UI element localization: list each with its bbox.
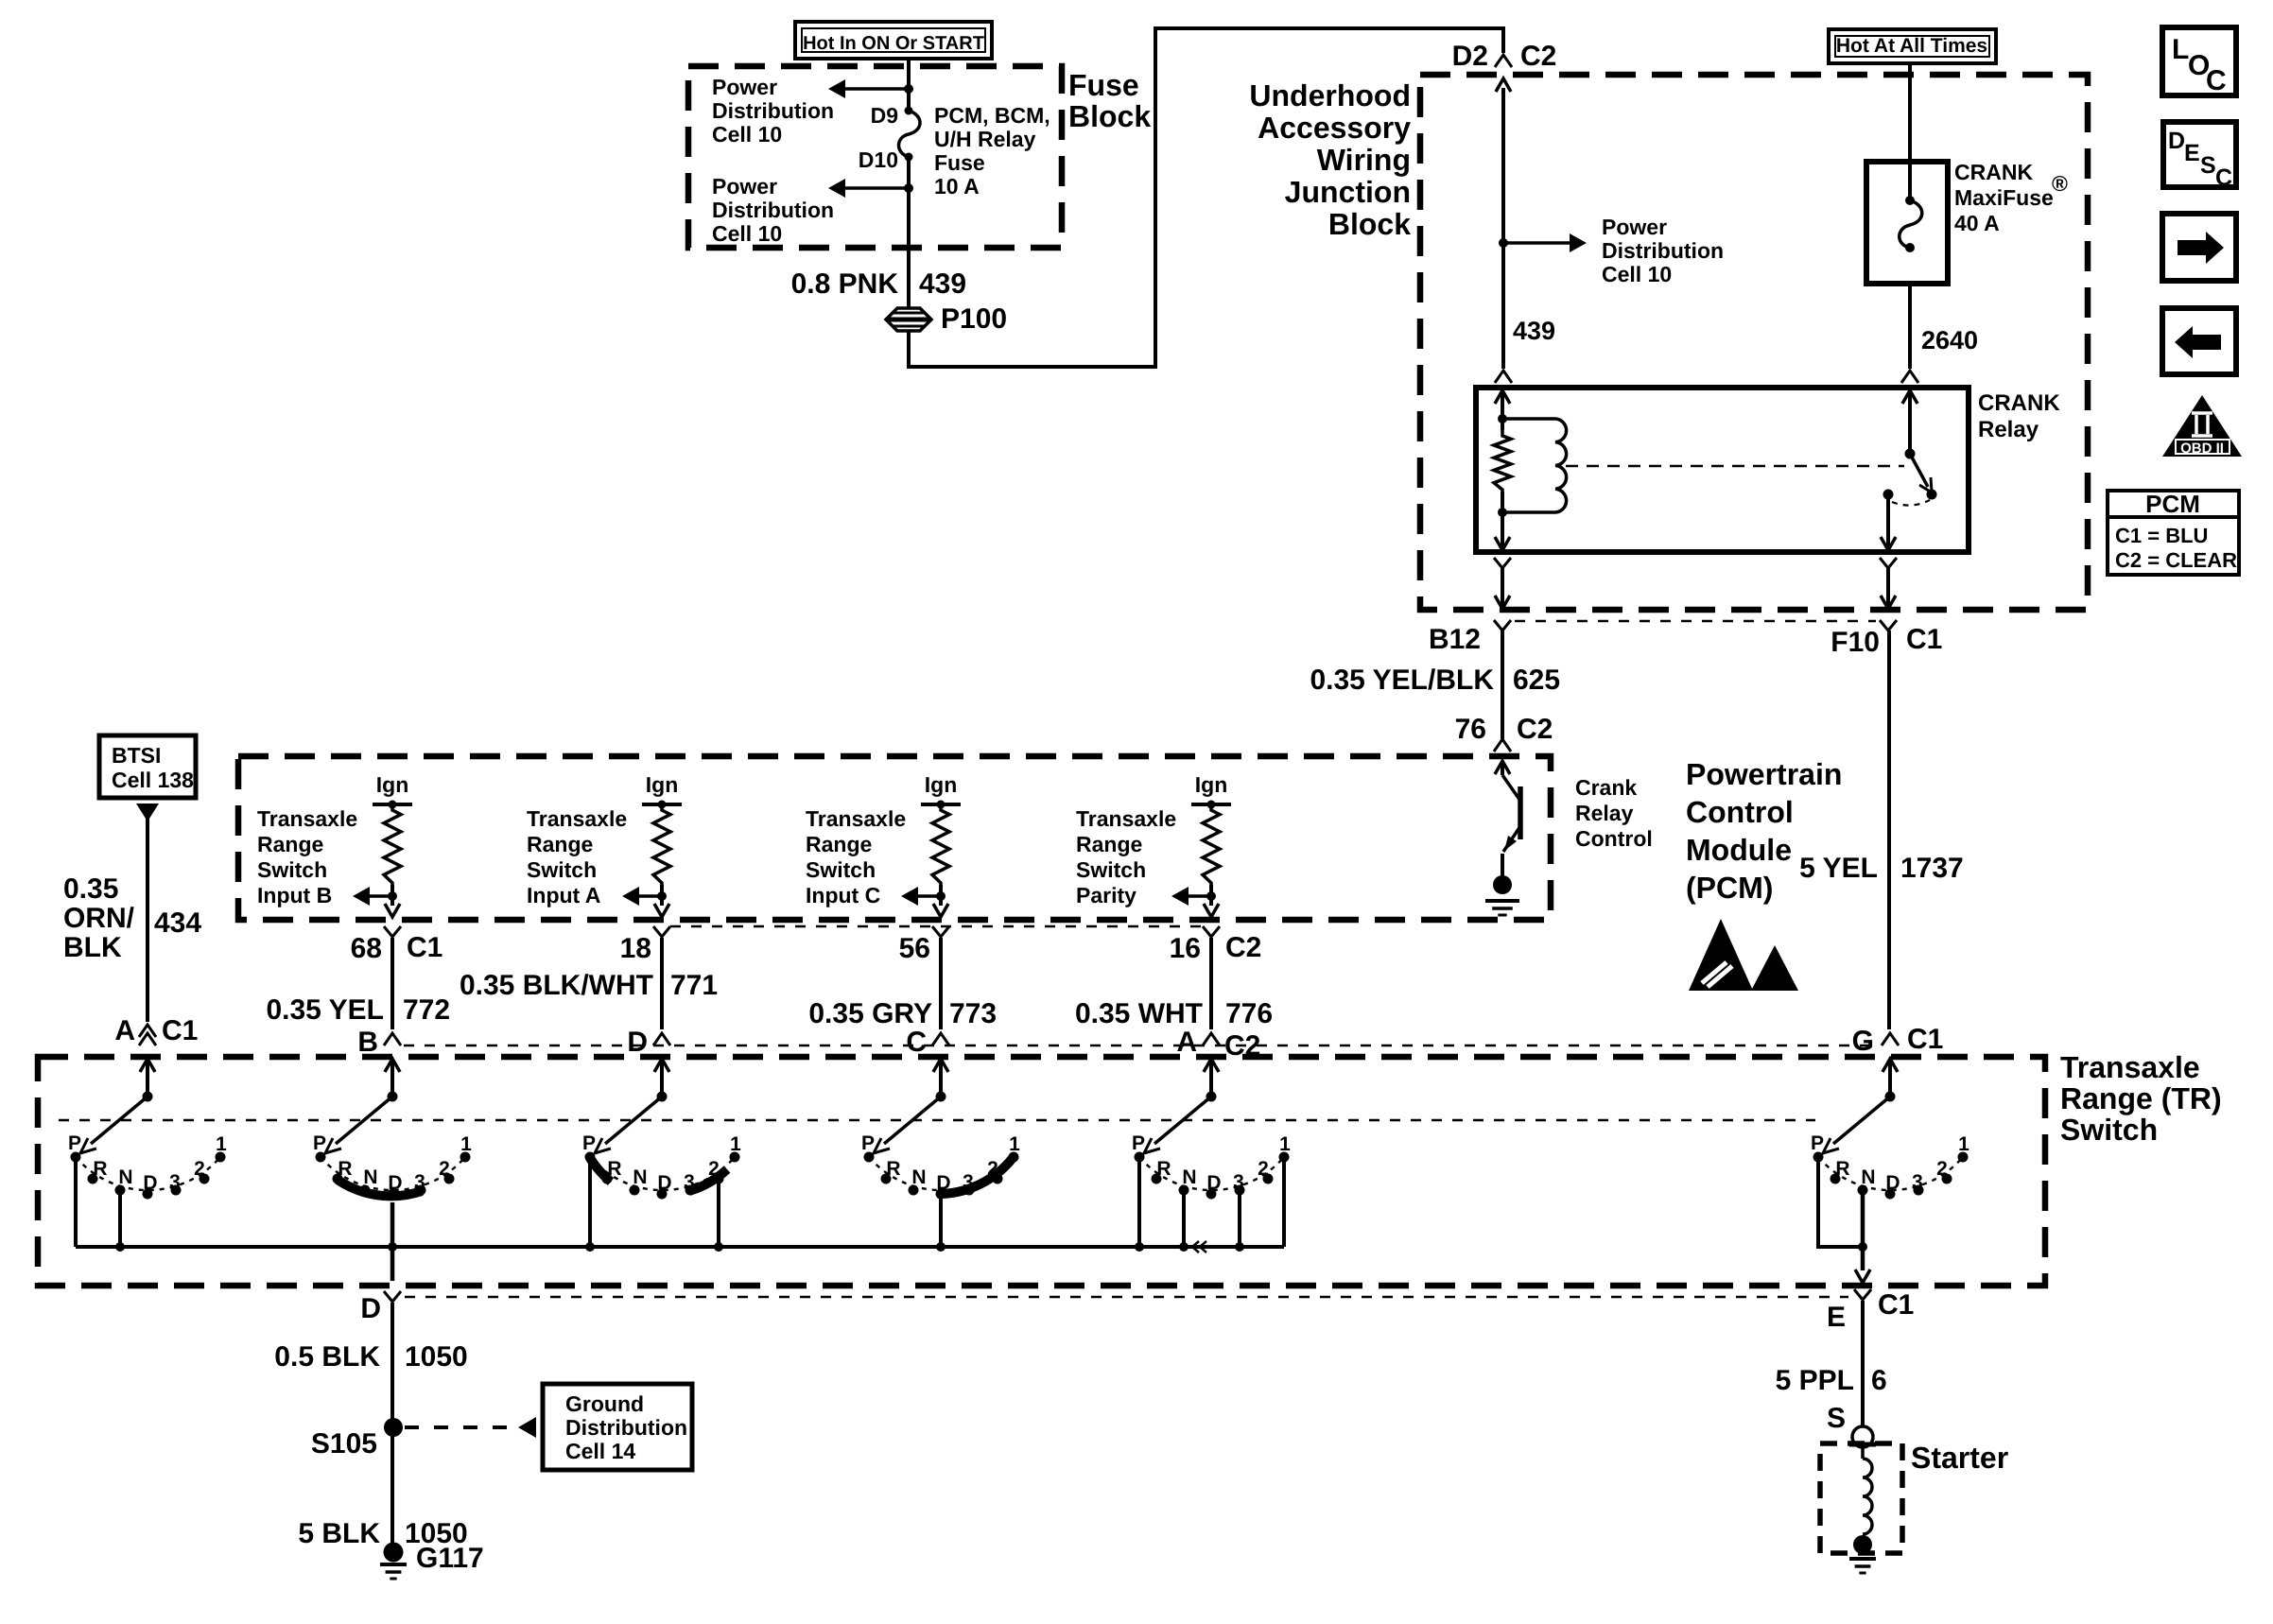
svg-text:Range: Range	[806, 832, 872, 856]
svg-text:L: L	[2172, 34, 2189, 65]
contact 3 (B)	[416, 1185, 426, 1196]
svg-text:MaxiFuse: MaxiFuse	[1954, 185, 2054, 210]
svg-text:OBD II: OBD II	[2180, 441, 2224, 457]
svg-text:Block: Block	[1068, 99, 1151, 133]
contact 1 (G)	[1958, 1152, 1969, 1163]
svg-text:1737: 1737	[1900, 853, 1964, 884]
wire: branch to power distribution cell 10 (bottom)	[845, 186, 909, 190]
contact P (D)	[585, 1152, 596, 1163]
svg-text:68: 68	[351, 933, 382, 964]
contact D (Parity)	[1206, 1189, 1217, 1200]
connector chevron: TR pin G	[1882, 1033, 1899, 1045]
svg-text:D: D	[388, 1172, 402, 1194]
contact 2 (Parity)	[1263, 1174, 1274, 1184]
svg-text:2: 2	[194, 1158, 205, 1180]
svg-text:U/H Relay: U/H Relay	[934, 127, 1036, 151]
contact N (D)	[630, 1185, 640, 1196]
wire: contact D to bus (C)	[939, 1194, 943, 1247]
svg-text:2: 2	[1258, 1158, 1269, 1180]
svg-text:A: A	[1176, 1027, 1197, 1058]
switch wiper (D)	[605, 1097, 662, 1144]
svg-text:0.5 BLK: 0.5 BLK	[274, 1341, 380, 1373]
svg-text:16: 16	[1170, 933, 1201, 964]
svg-text:Module: Module	[1686, 833, 1792, 867]
svg-text:D: D	[1885, 1172, 1900, 1194]
svg-text:0.35 YEL: 0.35 YEL	[266, 994, 384, 1026]
connector chevron: TR pin C	[932, 1033, 949, 1045]
svg-text:Transaxle: Transaxle	[806, 806, 906, 831]
underhood accessory wiring junction block dashed box	[1420, 75, 2088, 610]
svg-text:2: 2	[1936, 1158, 1948, 1180]
label box: Ground Distribution Cell 14	[543, 1384, 692, 1470]
svg-text:®: ®	[2052, 171, 2068, 196]
wire: wiper feed (Parity)	[1209, 1059, 1213, 1097]
svg-text:D: D	[360, 1293, 381, 1324]
relay box: CRANK Relay	[1476, 388, 1969, 552]
resistor: relay coil suppression	[1494, 430, 1511, 492]
arrow: into TR switch (C)	[933, 1059, 948, 1072]
node D10	[905, 153, 913, 162]
svg-text:439: 439	[919, 268, 966, 300]
arrow: sense into logic (Input C)	[901, 887, 918, 906]
arrow: into TR switch (B)	[385, 1059, 400, 1072]
connector: A C1 chevron	[139, 1025, 156, 1037]
dashed arc: switch throw	[1892, 500, 1930, 506]
svg-text:C2: C2	[1520, 41, 1556, 72]
svg-text:Power: Power	[712, 174, 777, 199]
node: bus junction (B-D)	[388, 1242, 397, 1252]
svg-text:C: C	[2215, 164, 2232, 191]
dashed link: switch mechanical coupling	[59, 1119, 1815, 1122]
svg-text:Ign: Ign	[646, 772, 679, 797]
arrow: sense into logic (Parity)	[1171, 887, 1189, 906]
svg-text:PCM, BCM,: PCM, BCM,	[934, 103, 1050, 128]
connector chevron: pin 68	[384, 926, 401, 937]
dashed connector line B12-F10	[1515, 620, 1876, 623]
node: coil bottom	[1498, 508, 1507, 517]
svg-text:CRANK: CRANK	[1954, 160, 2033, 184]
svg-text:P: P	[1132, 1132, 1145, 1154]
svg-text:Range: Range	[257, 832, 323, 856]
switch wiper (Parity)	[1154, 1097, 1211, 1144]
wire: wiper feed (A)	[146, 1059, 149, 1097]
wire: PCM pin 56 to TR switch	[939, 938, 943, 1029]
node: splice S105	[384, 1418, 403, 1437]
contact 2 (D)	[714, 1174, 724, 1184]
svg-text:6: 6	[1871, 1365, 1887, 1396]
node: wiper pivot (D)	[657, 1092, 668, 1102]
arrow: sense into logic (Input B)	[353, 887, 370, 906]
wire: resistor to node (Input A)	[660, 885, 664, 906]
wire: contact P down (G)	[1818, 1157, 1863, 1247]
dashed connector line C2 top	[670, 925, 1203, 928]
svg-text:Input A: Input A	[527, 883, 600, 907]
contact 1 (Parity)	[1279, 1152, 1290, 1163]
ground: PCM internal	[1493, 875, 1512, 894]
contact 3 (Parity)	[1235, 1185, 1245, 1196]
wire: sense branch left (Parity)	[1187, 894, 1211, 898]
label box: Hot In ON Or START	[795, 22, 992, 59]
wire: TR switch ground lead	[390, 1303, 394, 1557]
svg-text:771: 771	[670, 970, 718, 1001]
dashed link: to ground distribution	[405, 1425, 516, 1429]
svg-text:D: D	[657, 1172, 671, 1194]
wire: battery feed to maxifuse	[1908, 63, 1912, 200]
svg-text:N: N	[1182, 1166, 1196, 1188]
svg-text:1050: 1050	[405, 1341, 468, 1373]
svg-text:D: D	[143, 1172, 157, 1194]
contact P (Parity)	[1135, 1152, 1145, 1163]
svg-text:N: N	[363, 1166, 377, 1188]
svg-text:C1 = BLU: C1 = BLU	[2115, 524, 2208, 547]
dashed link: relay actuation	[1566, 465, 1904, 468]
arrow: into TR switch (A)	[140, 1059, 155, 1072]
svg-text:Cell 14: Cell 14	[565, 1439, 635, 1463]
svg-text:Input C: Input C	[806, 883, 880, 907]
svg-text:C2: C2	[1225, 932, 1261, 963]
svg-text:P: P	[582, 1132, 596, 1154]
node: bus junction (D-P)	[585, 1242, 595, 1252]
icon: back arrow box	[2162, 308, 2236, 374]
svg-text:ORN/: ORN/	[63, 903, 135, 934]
arrow: coil ground out of relay	[1495, 537, 1510, 550]
node: switch thrown contact	[1927, 490, 1937, 500]
svg-text:D10: D10	[859, 147, 898, 172]
svg-text:C2: C2	[1517, 714, 1553, 745]
arrow: output down (Input A)	[654, 904, 669, 917]
arrow: switched feed into relay	[1902, 390, 1917, 404]
node: junction to power distribution	[1499, 238, 1508, 248]
node: wiper pivot (B)	[388, 1092, 398, 1102]
contact R (C)	[881, 1174, 892, 1184]
svg-text:5 PPL: 5 PPL	[1776, 1365, 1854, 1396]
svg-text:Control: Control	[1686, 795, 1794, 829]
wire: 5 YEL 1737 PCM F10 to TR switch G	[1887, 631, 1891, 1029]
dashed contact arc (Parity)	[1139, 1157, 1284, 1190]
contact P (C)	[864, 1152, 875, 1163]
svg-text:PCM: PCM	[2145, 490, 2200, 518]
node: sense (Input A)	[657, 891, 667, 901]
wire: relay switch common	[1908, 390, 1912, 454]
svg-text:F10: F10	[1831, 627, 1880, 658]
svg-text:2: 2	[439, 1158, 450, 1180]
node: sense (Parity)	[1206, 891, 1216, 901]
svg-text:625: 625	[1513, 665, 1560, 696]
contact 2 (B)	[444, 1174, 455, 1184]
svg-text:E: E	[1827, 1302, 1846, 1333]
connector: B12 chevron	[1494, 620, 1511, 631]
svg-text:Range (TR): Range (TR)	[2060, 1081, 2222, 1115]
svg-text:5 BLK: 5 BLK	[298, 1518, 380, 1549]
node D9	[905, 107, 913, 115]
arrow: E output down	[1855, 1270, 1870, 1283]
connector chevron below relay (right)	[1880, 558, 1897, 568]
switch wiper (B)	[336, 1097, 392, 1144]
wire: D contact output (B column)	[390, 1202, 395, 1281]
node: maxifuse top	[1905, 196, 1915, 205]
wire: contact N down (G)	[1861, 1190, 1865, 1247]
svg-text:772: 772	[403, 994, 450, 1026]
contact D (D)	[657, 1189, 668, 1200]
svg-text:D: D	[627, 1027, 648, 1058]
svg-text:(PCM): (PCM)	[1686, 871, 1773, 905]
closed contact arc R-3 (B)	[338, 1180, 422, 1196]
svg-text:773: 773	[949, 998, 997, 1029]
contact D (A)	[143, 1189, 153, 1200]
svg-text:G117: G117	[416, 1543, 484, 1574]
svg-text:1: 1	[1279, 1133, 1291, 1155]
Ign rail bar (Input B)	[373, 803, 412, 806]
wire: fuse output	[907, 157, 911, 307]
wire: to junction block edge (left)	[1501, 568, 1504, 608]
contact R (D)	[602, 1174, 613, 1184]
node: coil top	[1498, 414, 1507, 423]
connector chevron: TR pin B	[384, 1033, 401, 1045]
svg-text:1: 1	[460, 1133, 472, 1155]
Ign rail bar (Input A)	[642, 803, 682, 806]
icon: OBD II triangle	[2162, 395, 2242, 457]
svg-text:Range: Range	[1076, 832, 1142, 856]
wire: relay coil left leg	[1501, 390, 1504, 430]
contact 1 (B)	[460, 1152, 471, 1163]
svg-text:N: N	[1861, 1166, 1875, 1188]
svg-text:0.35 YEL/BLK: 0.35 YEL/BLK	[1310, 665, 1494, 696]
arrow: into junction block (439)	[1496, 78, 1511, 92]
svg-text:Switch: Switch	[806, 857, 876, 882]
node: bus junction (Parity-P)	[1135, 1242, 1144, 1252]
icon: forward arrow box	[2162, 214, 2236, 281]
node: junction (G)	[1858, 1242, 1867, 1252]
svg-text:3: 3	[169, 1171, 181, 1193]
dashed connector line TR top	[404, 1045, 1878, 1047]
arrow: output down (Input B)	[385, 904, 400, 917]
svg-text:434: 434	[154, 907, 201, 939]
svg-text:Distribution: Distribution	[565, 1415, 687, 1440]
node: bus junction (C-D)	[936, 1242, 946, 1252]
node: bus junction (Parity-N)	[1179, 1242, 1189, 1252]
wire: contact P to bus (Parity)	[1137, 1157, 1141, 1247]
fuse box: CRANK MaxiFuse	[1866, 162, 1948, 284]
svg-text:Fuse: Fuse	[934, 150, 985, 175]
svg-text:1: 1	[216, 1133, 227, 1155]
svg-text:P100: P100	[941, 303, 1007, 335]
wire: to junction block edge (right)	[1886, 568, 1890, 608]
contact R (Parity)	[1152, 1174, 1162, 1184]
svg-text:D2: D2	[1452, 41, 1488, 72]
svg-text:C1: C1	[1906, 624, 1942, 655]
wire: E output inside box	[1861, 1247, 1865, 1270]
arrow: into TR switch (G)	[1883, 1059, 1898, 1072]
wire: wiper feed (B)	[390, 1059, 394, 1097]
svg-text:Underhood: Underhood	[1249, 78, 1411, 112]
contact D (G)	[1885, 1189, 1896, 1200]
svg-text:0.8 PNK: 0.8 PNK	[791, 268, 899, 300]
contact N (A)	[115, 1185, 126, 1196]
contact R (B)	[333, 1174, 343, 1184]
svg-text:Cell 10: Cell 10	[712, 122, 782, 147]
legend box: PCM connectors	[2108, 491, 2239, 575]
ground: starter case	[1853, 1535, 1872, 1554]
svg-text:Relay: Relay	[1575, 801, 1634, 825]
svg-text:Distribution: Distribution	[1602, 238, 1724, 263]
ESD warning symbol	[1689, 919, 1798, 991]
svg-text:S: S	[2200, 152, 2216, 179]
svg-text:Power: Power	[712, 75, 777, 99]
wire: TR switch ground bus	[76, 1245, 1284, 1249]
svg-text:Switch: Switch	[2060, 1113, 2158, 1147]
terminal: starter S ring	[1852, 1426, 1873, 1447]
contact 3 (D)	[685, 1185, 696, 1196]
wire: crank relay control from PCM	[1501, 631, 1504, 739]
svg-text:B12: B12	[1429, 624, 1481, 655]
resistor: pull-up (Input C)	[932, 804, 949, 885]
wire: contact N to bus (Parity)	[1182, 1190, 1186, 1247]
Transaxle Range switch dashed box	[38, 1057, 2045, 1286]
svg-text:Fuse: Fuse	[1068, 68, 1139, 102]
svg-text:Ign: Ign	[1195, 772, 1228, 797]
contact N (B)	[360, 1185, 371, 1196]
arrow: ground distribution reference	[518, 1417, 536, 1438]
svg-text:G: G	[1852, 1026, 1874, 1057]
wire: contact 3 to bus (Parity)	[1238, 1190, 1241, 1247]
svg-text:1: 1	[1958, 1133, 1969, 1155]
contact P (A)	[71, 1152, 81, 1163]
svg-text:Power: Power	[1602, 215, 1667, 239]
svg-text:56: 56	[899, 933, 930, 964]
svg-text:Hot In ON Or START: Hot In ON Or START	[803, 33, 984, 54]
contact P (B)	[316, 1152, 326, 1163]
svg-text:Ign: Ign	[925, 772, 958, 797]
svg-text:C1: C1	[1907, 1024, 1943, 1055]
svg-text:Ign: Ign	[376, 772, 409, 797]
contact N (C)	[909, 1185, 919, 1196]
svg-text:N: N	[911, 1166, 926, 1188]
svg-text:R: R	[1835, 1158, 1849, 1180]
wire: contact P to bus (A)	[74, 1157, 78, 1247]
svg-text:C1: C1	[407, 932, 442, 963]
svg-text:P: P	[861, 1132, 875, 1154]
connector: F10 chevron	[1880, 620, 1897, 631]
svg-text:R: R	[1156, 1158, 1171, 1180]
svg-text:C: C	[906, 1027, 927, 1058]
svg-text:Transaxle: Transaxle	[2060, 1050, 2200, 1084]
svg-text:Input B: Input B	[257, 883, 332, 907]
connector chevron: pin 56	[932, 926, 949, 937]
arrow: out of junction block (left)	[1495, 596, 1510, 609]
contact N (G)	[1858, 1185, 1868, 1196]
resistor: pull-up (Parity)	[1203, 804, 1220, 885]
svg-text:Cell 10: Cell 10	[712, 221, 782, 246]
icon: DESC box	[2163, 122, 2236, 187]
switch wiper (A)	[91, 1097, 147, 1144]
contact R (G)	[1831, 1174, 1841, 1184]
svg-text:N: N	[118, 1166, 132, 1188]
wire: contact 1 to bus end (Parity)	[1282, 1157, 1286, 1247]
contact 3 (G)	[1914, 1185, 1924, 1196]
contact D (C)	[936, 1189, 946, 1200]
wire: PCM pin 18 to TR switch	[660, 938, 664, 1029]
svg-text:Crank: Crank	[1575, 775, 1637, 800]
starter dashed box	[1820, 1443, 1902, 1553]
connector: TR pin E chevron	[1854, 1289, 1871, 1300]
contact 2 (G)	[1942, 1174, 1952, 1184]
node: sense (Input B)	[388, 891, 397, 901]
node: switch pivot	[1905, 449, 1916, 459]
svg-text:C1: C1	[1878, 1289, 1914, 1321]
svg-text:Transaxle: Transaxle	[1076, 806, 1176, 831]
Ign rail bar (Parity)	[1191, 803, 1231, 806]
svg-text:40 A: 40 A	[1954, 211, 2000, 235]
wire: contact N to bus (A)	[118, 1190, 122, 1247]
arrow: off-page left (top)	[828, 79, 845, 98]
svg-text:D: D	[1206, 1172, 1221, 1194]
wire: wiper feed (G)	[1888, 1059, 1892, 1097]
contact R (A)	[88, 1174, 98, 1184]
label box: Hot At All Times	[1829, 29, 1996, 63]
wire: branch to power distribution cell 10 (top)	[845, 87, 909, 91]
wire: relay output	[1886, 494, 1890, 552]
closed contact arc P-R (D)	[590, 1158, 611, 1182]
contact 3 (C)	[964, 1185, 975, 1196]
label box: BTSI Cell 138	[99, 735, 196, 798]
svg-text:Junction: Junction	[1285, 175, 1411, 209]
wire: maxifuse to crank relay	[1908, 284, 1912, 369]
svg-text:Transaxle: Transaxle	[527, 806, 627, 831]
svg-text:1: 1	[730, 1133, 741, 1155]
wire: P100 to junction block (down, right, up, right)	[909, 28, 1503, 367]
wire: contact P to bus (D)	[588, 1159, 592, 1247]
dashed contact arc (G)	[1818, 1157, 1963, 1190]
wire: PCM pin 68 to TR switch	[390, 938, 394, 1029]
svg-text:Wiring: Wiring	[1317, 143, 1411, 177]
node: wiper pivot (G)	[1885, 1092, 1896, 1102]
node: sense (Input C)	[936, 891, 946, 901]
connector chevron: TR pin D	[653, 1033, 670, 1045]
svg-text:Distribution: Distribution	[712, 198, 834, 222]
dashed connector line D-E	[405, 1296, 1848, 1299]
dashed contact arc (C)	[869, 1157, 1014, 1190]
wire: 5 PPL 6 to starter	[1861, 1301, 1865, 1425]
wire: wiper feed (C)	[939, 1059, 943, 1097]
transistor: crank relay control driver	[1495, 761, 1510, 774]
node: switch output contact	[1883, 490, 1894, 500]
wire: BTSI to TR switch pin A	[146, 819, 149, 1022]
svg-text:BLK: BLK	[63, 932, 122, 963]
arrow: out of junction block (right)	[1881, 596, 1896, 609]
contact 3 (A)	[171, 1185, 182, 1196]
wire: wiper feed (D)	[660, 1059, 664, 1097]
wire: emitter to ground	[1501, 854, 1504, 877]
wire: PCM pin 16 to TR switch	[1209, 938, 1213, 1029]
svg-text:Relay: Relay	[1978, 417, 2039, 442]
node: bus junction (Parity-3)	[1235, 1242, 1244, 1252]
svg-text:CRANK: CRANK	[1978, 390, 2060, 416]
svg-text:2640: 2640	[1921, 326, 1978, 354]
arrow: coil feed into relay	[1495, 390, 1510, 404]
svg-text:C1: C1	[162, 1015, 198, 1046]
svg-text:E: E	[2184, 140, 2200, 166]
node: wiper pivot (A)	[143, 1092, 153, 1102]
svg-text:Cell 10: Cell 10	[1602, 262, 1672, 286]
svg-text:Distribution: Distribution	[712, 98, 834, 123]
svg-text:Starter: Starter	[1911, 1441, 2008, 1475]
contact 2 (A)	[200, 1174, 210, 1184]
svg-text:P: P	[1811, 1132, 1824, 1154]
wire: branch to power distribution	[1503, 241, 1570, 245]
connector chevron: 439 into crank relay	[1495, 371, 1512, 383]
arrow: output down (Input C)	[933, 904, 948, 917]
node: junction to power distribution (top)	[904, 84, 913, 94]
